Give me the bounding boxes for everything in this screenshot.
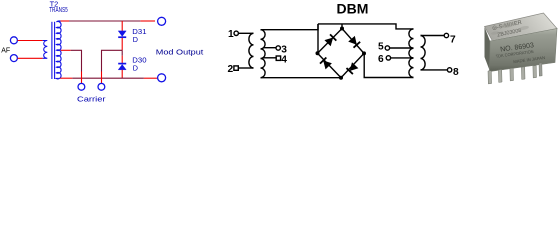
transformer T1 primary coil [249,33,254,68]
port 6 terminal [386,56,390,60]
pin D30 top (red) [121,56,123,64]
svg-text:7: 7 [450,34,456,45]
wire T1 secondary bottom rail [261,77,342,79]
port 5 terminal [385,46,389,50]
wire port6 [391,57,414,59]
port 1 terminal [234,31,238,35]
port 7 terminal [444,33,448,37]
wire port3 [264,47,277,49]
terminal Mod Output [158,17,166,25]
node right vertex [362,51,366,55]
terminal bottom unlabeled [158,74,166,82]
module pin 5 [533,66,537,78]
wire T1 secondary top [261,24,319,30]
module top/front edge highlight [491,29,557,41]
diode D31 [118,31,126,37]
wire bottom rail (maroon) [72,77,144,79]
svg-text:6: 6 [378,54,384,65]
transformer T2 core [51,22,53,79]
svg-text:4: 4 [281,54,287,65]
svg-text:AF: AF [1,48,10,55]
pin AF1 [18,40,43,42]
wire port4 [264,57,277,59]
module pin 4 [521,67,525,80]
pin Carrier1 (red) [81,72,83,84]
wire port2 [238,67,253,69]
svg-text:Carrier: Carrier [77,95,106,104]
terminal AF1 [10,37,17,44]
pin D31 bottom (red) [121,38,123,50]
transformer T1 secondary coil [261,30,266,78]
pin D31 top (red) [121,21,123,31]
diode lower-left arm [320,58,332,70]
wire top vertex stub [341,24,343,29]
port 4 terminal [276,56,280,60]
pin Carrier2 (red) [101,72,103,84]
terminal AF2 [10,55,17,62]
wire mid left (maroon) [71,50,82,71]
wire port5 [390,47,414,49]
pin AF2 [18,57,43,59]
wire port8 [421,69,448,71]
wire top rail (maroon) [69,20,140,22]
transformer T2 secondary coil [56,21,61,79]
transformer T2 primary coil [43,41,48,59]
module left side face [485,27,491,72]
wire port1 [238,32,253,34]
module top face [485,13,558,41]
pin bottom terminal (red) [144,77,158,79]
diode upper-left arm [324,34,336,46]
wire right vertex drop [364,53,413,77]
svg-text:2: 2 [228,64,234,75]
svg-text:TRANS5: TRANS5 [49,5,67,14]
wire mid tap (red pin) [61,49,71,51]
wire sec top pin (red) [61,20,70,22]
svg-text:DBM: DBM [337,1,369,17]
wire port7 [421,35,445,37]
module top face mottling [501,21,516,29]
port 3 terminal [276,46,280,50]
port 2 terminal [234,66,238,70]
svg-text:Mod Output: Mod Output [156,47,204,56]
module pin 2 [498,69,502,82]
svg-text:8: 8 [453,67,459,78]
node bottom vertex [339,76,343,80]
node left vertex [316,51,320,55]
diode D30 [118,63,126,65]
svg-text:5: 5 [378,42,384,53]
svg-text:D: D [133,63,138,72]
diode lower-right arm [346,62,358,74]
wire D30 top (maroon) [121,50,123,55]
port 8 terminal [447,68,451,72]
pin sec bottom (red) [60,77,72,79]
terminal Carrier1 [78,83,85,90]
pin D30 bottom (red) [121,70,123,79]
module pin 6 back row [539,63,542,76]
diode ring edges [318,29,365,78]
terminal Carrier2 [98,83,105,90]
module front face [490,29,558,72]
svg-text:D: D [133,35,138,44]
wire left vertex drop [317,24,319,53]
transformer T2dbm secondary coil [409,29,414,78]
module pin 3 [510,68,514,81]
node top vertex [340,27,344,31]
diode upper-right arm [348,36,360,48]
module pin 1 [488,71,492,84]
svg-text:1: 1 [228,29,234,40]
wire mid right (maroon) [102,50,123,71]
wire top rail [318,24,414,29]
transformer T2dbm primary coil [421,36,426,70]
pin Mod Output terminal (red) [140,20,155,22]
